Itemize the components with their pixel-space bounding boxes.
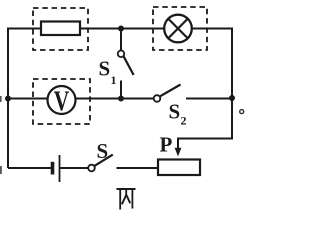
voltmeter dashed box (33, 79, 90, 124)
svg-text:2: 2 (181, 114, 187, 128)
svg-text:V: V (54, 87, 70, 118)
svg-text:S: S (99, 57, 111, 81)
svg-text:1: 1 (111, 73, 117, 87)
scan artifact left edge middle (0, 96, 2, 102)
rheostat box (158, 160, 200, 176)
switch S1 blade (124, 56, 134, 75)
node junction right middle (229, 95, 235, 101)
node junction left middle (5, 96, 11, 102)
battery positive plate long thin (59, 155, 61, 182)
switch S pivot circle (88, 165, 95, 172)
wire middle right segment after S2 (186, 98, 232, 100)
voltmeter V circle (48, 86, 76, 114)
scan artifact left edge bottom (0, 166, 2, 174)
wire middle horizontal (8, 98, 154, 100)
switch S1 pivot circle (118, 51, 125, 58)
svg-text:S: S (169, 100, 181, 124)
node junction top S1 branch (118, 26, 124, 32)
lamp dashed box (153, 7, 207, 50)
switch S blade (95, 155, 113, 166)
caption 丙 drawn strokes (117, 189, 136, 210)
switch S1 lower contact wire (120, 81, 122, 99)
wire battery to switch S (60, 167, 88, 169)
wire bottom from left corner to rheostat (8, 167, 51, 169)
switch S2 pivot circle (154, 95, 161, 102)
lamp circle with X (164, 15, 192, 43)
resistor body (41, 22, 80, 36)
switch S2 blade (160, 85, 180, 97)
switch S1 wire from top node (120, 29, 122, 51)
rheostat slider arrow (175, 148, 182, 157)
svg-text:P: P (160, 133, 173, 157)
resistor dashed box (33, 8, 88, 50)
wire switch S to rheostat box (117, 167, 160, 169)
node junction middle S1 bottom (118, 96, 124, 102)
terminal small circle right side (240, 110, 244, 114)
battery negative plate short thick (51, 162, 55, 175)
wire top from left corner to right corner (8, 29, 232, 169)
svg-text:S: S (97, 139, 109, 163)
